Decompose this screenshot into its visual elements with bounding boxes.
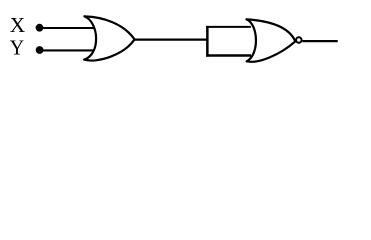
or-gate G1 (84, 16, 134, 60)
wire fanout bottom branch to NOR input (206, 54, 251, 57)
nor-gate G2 inversion bubble (296, 37, 302, 43)
wire OR output to fanout (134, 38, 208, 40)
node X terminal dot (36, 24, 44, 32)
wire fanout top branch to NOR input (206, 26, 251, 28)
nor-gate G2 body (247, 19, 296, 61)
wire fanout vertical (206, 26, 209, 57)
svg-text:X: X (10, 13, 26, 37)
wire NOR output (302, 40, 337, 42)
svg-text:Y: Y (10, 35, 24, 59)
wire Y input to OR gate (38, 49, 94, 51)
wire X input to OR gate (38, 27, 95, 29)
node Y terminal dot (36, 46, 44, 54)
